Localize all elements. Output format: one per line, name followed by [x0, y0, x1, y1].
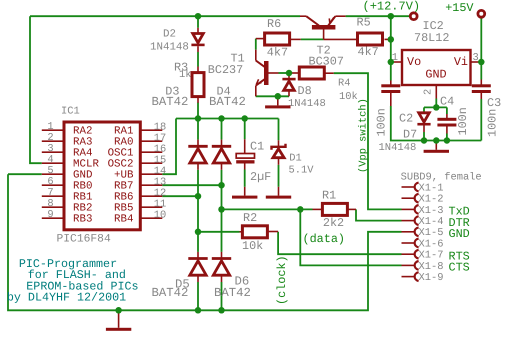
svg-text:X1-6: X1-6 [419, 238, 444, 250]
IC IC2 78L12 body [402, 50, 471, 85]
transistor T2 BC307 [300, 16, 346, 39]
junction rail/D3 [195, 115, 202, 122]
svg-text:5.1V: 5.1V [289, 165, 315, 177]
IC2 pin 3 lead [471, 61, 479, 63]
wire rail to C1 [244, 119, 246, 140]
wire D6 to gnd rail [221, 282, 223, 310]
ground ground symbol under C1 [232, 196, 257, 199]
svg-text:100n: 100n [486, 109, 500, 137]
wire to C4 top [446, 107, 448, 114]
svg-text:(clock): (clock) [275, 255, 289, 305]
wire Vpp to D2 [197, 16, 199, 28]
resistor R6 right pin [290, 38, 301, 40]
wire D3 down through RB6 R2 to D5 [197, 170, 199, 252]
ground ground symbol IC2 area [424, 150, 449, 153]
ground stub C1 [244, 187, 246, 196]
diode D2 top pin [197, 28, 199, 34]
wire T1 emitter row [256, 95, 289, 97]
wire pin5 GND wire [8, 173, 42, 175]
svg-text:BC237: BC237 [208, 63, 243, 77]
diode D7 1N4148 symbol [417, 113, 430, 124]
connector pin X1-8 [402, 261, 419, 270]
svg-text:X1-4: X1-4 [419, 216, 444, 228]
resistor R1 right pin [347, 208, 356, 210]
wire R6 to T1 collector [255, 39, 257, 50]
wire R3 to +UB rail [197, 103, 199, 119]
wire +15V vertical to C3 [480, 17, 482, 79]
resistor R3 bottom pin [197, 97, 199, 103]
resistor R1 2k2 body [322, 203, 347, 215]
IC1 pin 15 lead [140, 162, 162, 164]
connector pin X1-3 [402, 205, 419, 214]
diode D6 bottom pin [221, 276, 223, 282]
IC1 pin 4 lead [42, 162, 64, 164]
svg-text:(data): (data) [303, 232, 345, 246]
wire IC2 pin3 to +15V [479, 61, 482, 63]
svg-text:Vo: Vo [407, 55, 421, 69]
IC2 pin 2 lead [435, 85, 437, 99]
svg-text:(Vpp switch): (Vpp switch) [357, 98, 369, 173]
diode D5 top pin [197, 252, 199, 258]
connector pin X1-9 [402, 272, 419, 281]
svg-text:X1-3: X1-3 [419, 205, 444, 217]
supply node +12.7V circle [410, 13, 417, 20]
wire R5 right to +12.7V [388, 38, 391, 40]
resistor R5 left pin [324, 38, 358, 40]
connector pin X1-6 [402, 239, 419, 248]
transistor T1 BC237 [256, 50, 279, 97]
svg-text:X1-2: X1-2 [419, 194, 444, 206]
svg-text:D2: D2 [163, 28, 176, 40]
resistor R3 1k body [192, 73, 204, 97]
svg-text:R6: R6 [267, 17, 281, 31]
resistor R4 10k body [299, 67, 324, 79]
diode D6 top pin [221, 252, 223, 258]
wire +UB riser to pin14 [162, 119, 176, 175]
diode D7 top pin [423, 112, 425, 113]
wire C1 bottom to gnd [244, 170, 246, 187]
wire +12.7V to IC2 pin1 [391, 61, 394, 63]
svg-text:RB4: RB4 [114, 214, 133, 226]
connector pin X1-5 [402, 227, 419, 236]
IC1 pin 5 lead [42, 173, 64, 175]
junction IC2 pin3 branch [478, 59, 485, 66]
svg-text:1N4148: 1N4148 [379, 142, 417, 154]
ground stub T1 emitter [277, 96, 279, 105]
svg-text:X1-7: X1-7 [419, 250, 444, 262]
IC1 pin 8 lead [42, 206, 64, 208]
junction bottom rail gnd [115, 307, 122, 314]
IC1 pin 3 lead [42, 151, 64, 153]
junction emitter gnd node [275, 93, 282, 100]
svg-text:+15V: +15V [445, 1, 474, 15]
IC IC1 PIC16F84 body [64, 122, 140, 230]
diode D5 BAT42 symbol [188, 259, 207, 276]
IC1 pin 13 lead [140, 184, 162, 186]
svg-text:R2: R2 [243, 211, 257, 225]
IC1 pin 2 lead [42, 140, 64, 142]
svg-text:D7: D7 [403, 128, 417, 142]
diode D2 1N4148 symbol [191, 34, 204, 45]
diode D1 top pin [278, 140, 280, 147]
connector pin X1-4 [402, 216, 419, 225]
svg-text:10: 10 [154, 209, 166, 221]
svg-text:C2: C2 [399, 112, 413, 126]
svg-text:(+12.7V): (+12.7V) [363, 0, 421, 13]
zener diode D1 5.1V symbol [272, 144, 286, 158]
svg-text:10k: 10k [339, 91, 358, 103]
resistor R2 left pin [240, 231, 243, 233]
capacitor C3 top pin [480, 80, 482, 87]
wire IC2 gnd pin down [435, 99, 437, 108]
wire C4 bottom [446, 134, 448, 141]
diode D3 top pin [197, 140, 199, 146]
diode D8 1N4148 symbol [282, 79, 295, 90]
diode D6 BAT42 symbol [212, 259, 231, 276]
ground stub IC2 [435, 141, 437, 150]
capacitor C2 top pin [390, 81, 392, 87]
svg-text:IC1: IC1 [61, 106, 80, 118]
IC1 pin 12 lead [140, 195, 162, 197]
IC1 pin 18 lead [140, 129, 162, 131]
junction R5/+12.7V [388, 36, 395, 43]
wire gnd node horiz D7 C4 [424, 106, 447, 108]
ground ground symbol under D1 [266, 196, 291, 199]
junction T1 base node [286, 70, 293, 77]
svg-text:RB3: RB3 [73, 214, 92, 226]
svg-text:78L12: 78L12 [414, 31, 449, 45]
capacitor C1 2uF plates [236, 154, 254, 164]
IC1 pin 14 lead [140, 173, 162, 175]
junction gnd row/D7 [421, 137, 428, 144]
diode D2 bottom pin [197, 46, 199, 52]
capacitor C3 bottom pin [480, 93, 482, 99]
junction bottom rail/D5 [195, 307, 202, 314]
diode D4 BAT42 symbol [212, 146, 231, 163]
ground ground symbol under T1 [265, 105, 290, 108]
svg-text:10k: 10k [242, 239, 263, 253]
capacitor C3 100n plates [472, 84, 491, 93]
junction Vpp/D2 [195, 13, 202, 20]
junction gnd row/C4 [444, 137, 451, 144]
resistor R4 right pin [324, 72, 333, 74]
svg-text:C3: C3 [487, 96, 501, 110]
svg-text:2µF: 2µF [250, 170, 271, 184]
wire rail to D1 [278, 119, 280, 141]
capacitor C1 bottom pin [244, 164, 246, 170]
svg-text:X1-5: X1-5 [419, 227, 444, 239]
svg-text:9: 9 [47, 209, 53, 221]
wire C3 bottom [480, 99, 482, 141]
svg-text:100n: 100n [374, 108, 388, 136]
diode D3 BAT42 symbol [188, 146, 207, 163]
connector pin X1-2 [402, 194, 419, 203]
svg-text:1N4148: 1N4148 [288, 98, 326, 110]
wire DTR line [356, 209, 402, 220]
junction gnd row/stub [433, 137, 440, 144]
wire T1 base to D8 [279, 72, 290, 74]
wire D1 bottom to gnd [278, 165, 280, 187]
resistor R1 left pin [313, 208, 323, 210]
wire +12.7V rail [346, 15, 410, 17]
svg-text:BAT42: BAT42 [209, 95, 246, 109]
wire D7 bottom [423, 132, 425, 141]
IC1 pin 16 lead [140, 151, 162, 153]
resistor R5 4k7 body [358, 33, 383, 45]
svg-text:GND: GND [449, 227, 470, 241]
svg-text:D1: D1 [289, 153, 301, 165]
diode D3 bottom pin [197, 164, 199, 170]
IC1 pin 6 lead [42, 184, 64, 186]
svg-text:4k7: 4k7 [267, 46, 288, 60]
connector pin X1-7 [402, 250, 419, 259]
resistor R5 right pin [385, 38, 389, 40]
wire Vpp top rail [30, 15, 300, 17]
svg-text:X1-1: X1-1 [419, 182, 444, 194]
junction IC2 gnd node [433, 104, 440, 111]
svg-text:4k7: 4k7 [358, 45, 379, 59]
diode D4 top pin [221, 140, 223, 146]
IC1 pin 1 lead [42, 129, 64, 131]
svg-text:Vi: Vi [454, 55, 468, 69]
junction bottom rail/D6 [218, 307, 225, 314]
junction IC2 pin1 branch [388, 59, 395, 66]
IC1 pin 9 lead [42, 217, 64, 219]
wire rail to D3 [197, 119, 199, 140]
wire RTS clock line [278, 232, 401, 254]
wire D4 down through RB7 data to D6 [221, 170, 223, 252]
junction rail/D4 [218, 115, 225, 122]
wire pin13 RB7 wire [162, 184, 221, 186]
ground stub D1 [278, 187, 280, 196]
svg-text:C1: C1 [250, 140, 264, 154]
svg-text:2: 2 [423, 89, 435, 95]
svg-text:CTS: CTS [449, 261, 470, 275]
supply node +15V circle [478, 10, 485, 17]
svg-text:2k2: 2k2 [323, 216, 344, 230]
IC1 pin 17 lead [140, 140, 162, 142]
diode D8 top pin [288, 73, 290, 78]
capacitor C2 100n plates [381, 84, 400, 93]
wire CTS line [300, 209, 401, 265]
junction RB7 node [218, 182, 225, 189]
resistor R6 4k7 body [265, 33, 290, 45]
svg-text:R1: R1 [322, 189, 336, 203]
wire TxD / Vpp switch line [334, 73, 402, 209]
svg-text:3: 3 [473, 52, 479, 64]
svg-text:BAT42: BAT42 [152, 95, 189, 109]
junction rail/C1 [241, 115, 248, 122]
svg-text:BAT42: BAT42 [152, 286, 189, 300]
diode D7 bottom pin [423, 126, 425, 133]
svg-text:X1-9: X1-9 [419, 272, 444, 284]
svg-text:D8: D8 [298, 84, 312, 98]
wire data row [222, 208, 313, 210]
capacitor C2 bottom pin [390, 93, 392, 106]
ground ground symbol bottom [106, 328, 131, 331]
junction R2/D3 column [195, 229, 202, 236]
junction data/D4 column [218, 206, 225, 213]
junction data/CTS branch [297, 206, 304, 213]
wire R6 to T2 base [301, 38, 324, 40]
wire D5 to gnd rail [197, 282, 199, 310]
svg-text:by DL4YHF 12/2001: by DL4YHF 12/2001 [7, 291, 126, 305]
wire gnd row under C2 D7 C4 C3 [391, 106, 482, 141]
resistor R2 right pin [267, 231, 278, 233]
IC1 pin 10 lead [140, 217, 162, 219]
svg-text:C4: C4 [440, 95, 454, 109]
resistor R2 10k body [242, 226, 267, 238]
wire pin12 RB6 wire [162, 195, 198, 197]
IC1 pin 11 lead [140, 206, 162, 208]
wire GND bottom rail to X1-5 [8, 174, 402, 310]
junction +12.7V branch [388, 13, 395, 20]
resistor R3 top pin [197, 67, 199, 73]
wire D2 to R3 [197, 52, 199, 67]
connector pin X1-1 [402, 183, 419, 192]
wire Vpp to MCLR pin4 [30, 16, 42, 163]
diode D8 bottom pin [288, 90, 290, 96]
capacitor C4 bottom pin [446, 126, 448, 133]
diode D1 bottom pin [278, 158, 280, 165]
svg-text:X1-8: X1-8 [419, 261, 444, 273]
svg-text:R4: R4 [338, 77, 350, 89]
resistor R4 left pin [289, 72, 299, 74]
IC1 pin 7 lead [42, 195, 64, 197]
wire +UB bridge rail [176, 118, 279, 120]
resistor R6 left pin [256, 38, 265, 40]
svg-text:GND: GND [425, 68, 446, 82]
svg-text:1N4148: 1N4148 [150, 41, 189, 53]
diode D5 bottom pin [197, 276, 199, 282]
wire R2 row [198, 231, 240, 233]
wire +12.7V down to C2 [390, 16, 392, 80]
diode D4 bottom pin [221, 164, 223, 170]
capacitor C1 top pin [244, 139, 246, 153]
wire rail to D4 [221, 119, 223, 140]
IC2 pin 1 lead [394, 61, 402, 63]
svg-text:PIC16F84: PIC16F84 [57, 233, 111, 245]
svg-text:BAT42: BAT42 [214, 286, 251, 300]
ground stub bottom rail [118, 310, 120, 328]
svg-text:R5: R5 [357, 16, 371, 30]
capacitor C4 top pin [446, 114, 448, 119]
svg-text:100n: 100n [456, 107, 470, 135]
wire to D7 top [423, 107, 425, 112]
svg-text:1k: 1k [179, 69, 191, 81]
capacitor C4 100n plates [437, 118, 456, 127]
junction RB6 node [195, 193, 202, 200]
